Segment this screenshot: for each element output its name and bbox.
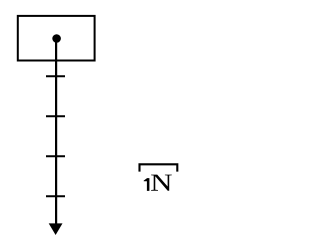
scale tick 4 <box>46 195 65 197</box>
label 1N: digit 1 <box>144 178 150 191</box>
block (rectangle) <box>18 16 95 61</box>
scale bracket for 1N legend <box>140 164 178 171</box>
arrowhead <box>49 223 63 235</box>
label 1N: letter N <box>151 175 172 191</box>
scale tick 3 <box>46 155 65 157</box>
node dot (force application point) <box>52 34 61 43</box>
scale tick 2 <box>46 115 65 117</box>
scale tick 1 <box>46 75 65 77</box>
force arrow shaft (wire) <box>55 39 57 225</box>
